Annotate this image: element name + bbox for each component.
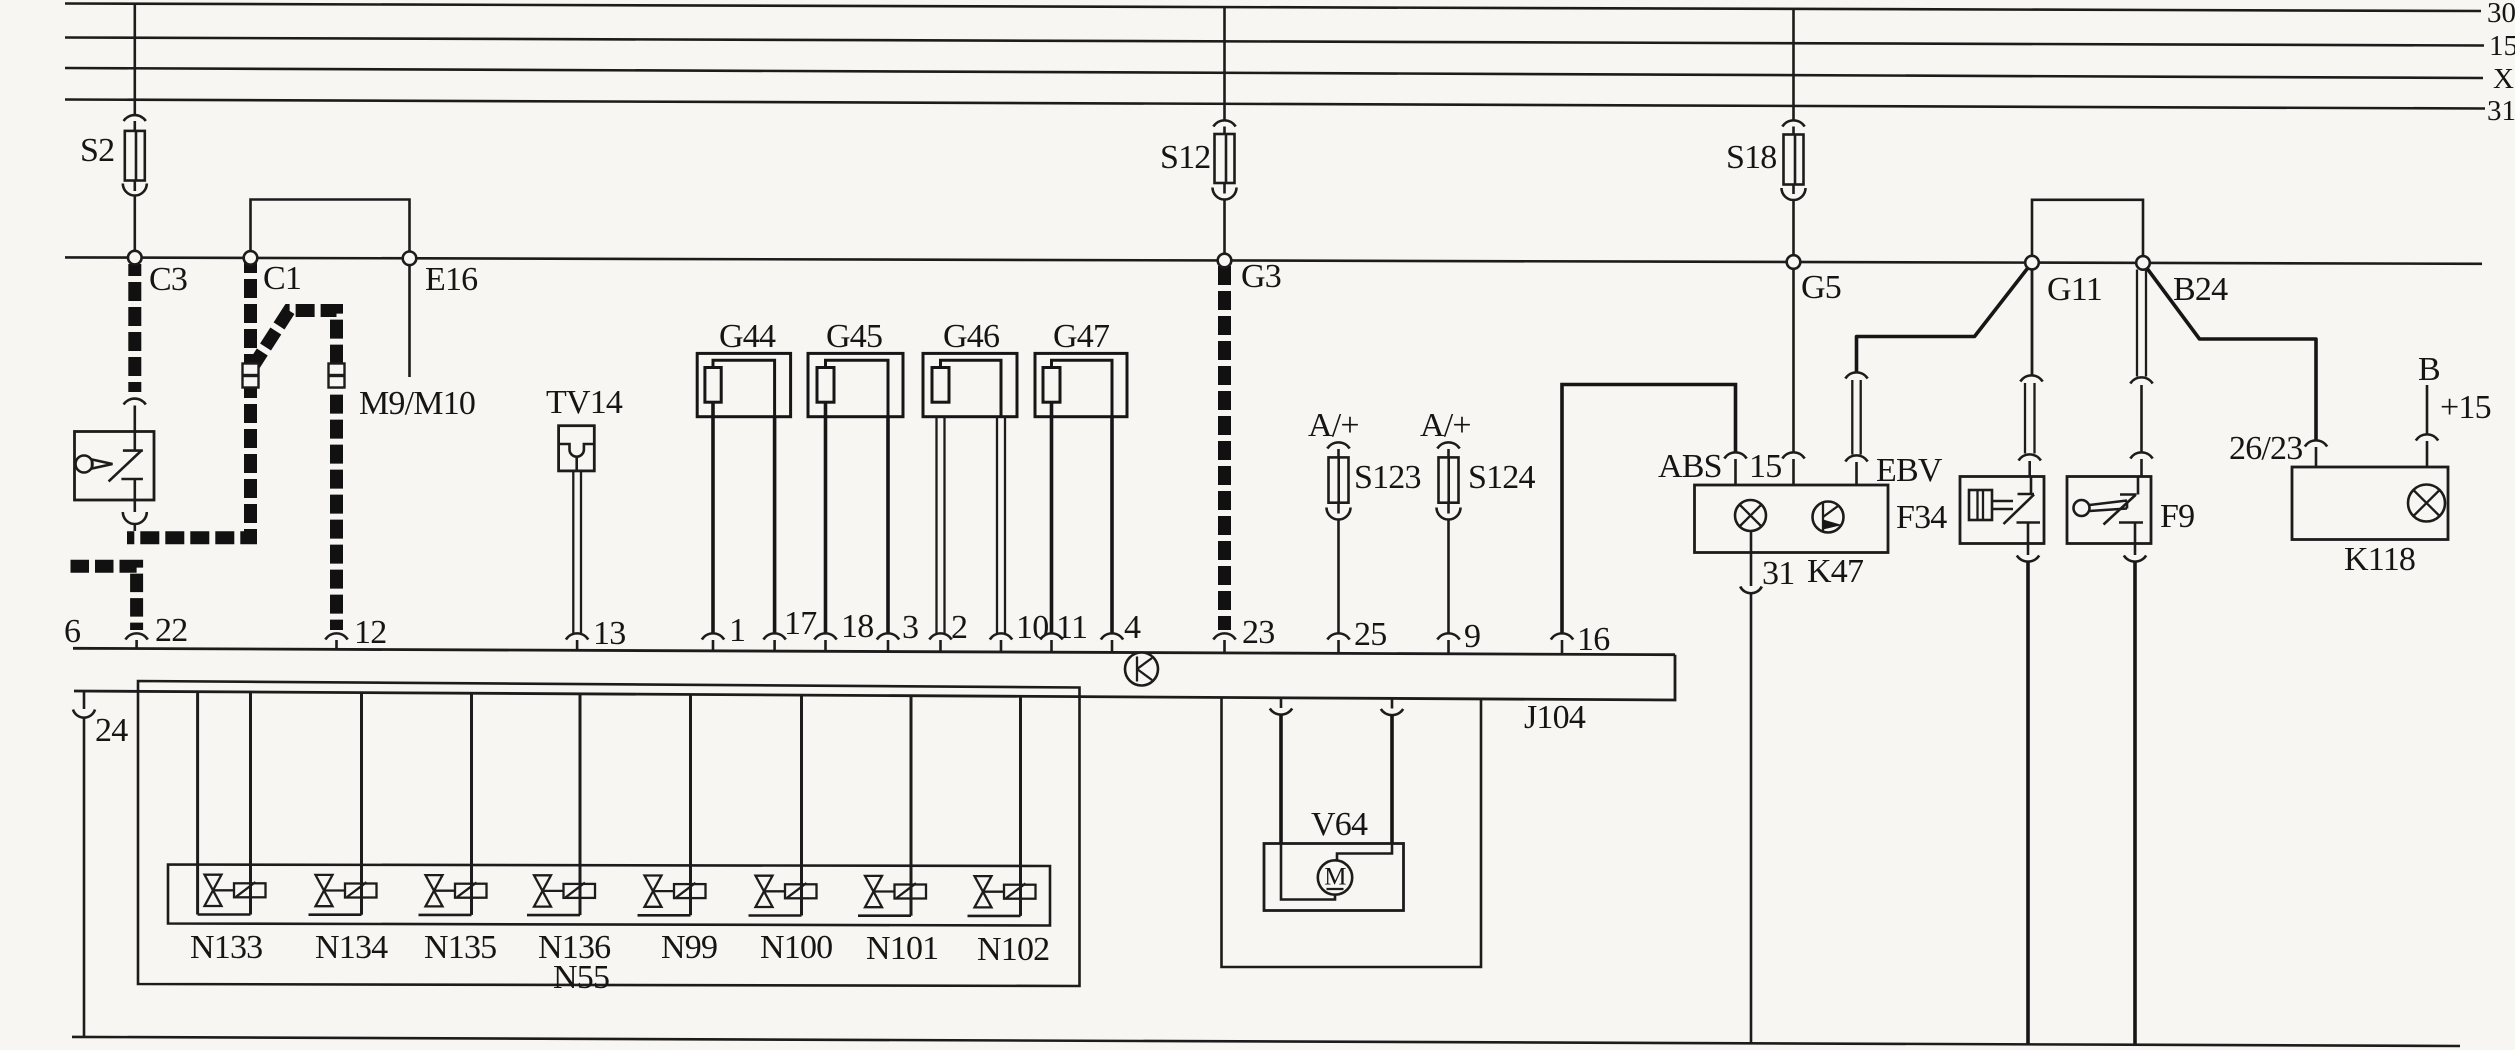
lamp unit K118: [2292, 467, 2448, 540]
wire G45 pin 3: [886, 417, 890, 633]
svg-text:17: 17: [784, 605, 817, 642]
connector arc B wire: [2416, 434, 2438, 440]
pin 9: [1437, 633, 1459, 653]
svg-text:N136: N136: [538, 929, 610, 966]
svg-text:C3: C3: [149, 261, 187, 298]
svg-text:6: 6: [64, 613, 80, 650]
connector arc ABS: [1724, 452, 1746, 458]
pin 23: [1213, 633, 1235, 652]
svg-text:15: 15: [2489, 30, 2515, 62]
connector EBV double wire: [1852, 380, 1860, 455]
pin below F34: [2027, 544, 2030, 556]
wire G5 to K47 pin 15: [1792, 269, 1795, 452]
speed sensor G44: [697, 353, 790, 416]
connector arc F9 mid: [2130, 377, 2152, 383]
wire G11 to F34: [2031, 269, 2034, 375]
solenoid valve N135: [419, 693, 487, 915]
svg-text:11: 11: [1056, 609, 1087, 646]
svg-text:K118: K118: [2344, 541, 2415, 578]
svg-text:S12: S12: [1160, 139, 1211, 176]
control unit J104 box: [73, 648, 1675, 700]
svg-text:1: 1: [729, 612, 745, 649]
diagnostic K symbol on J104: [1125, 653, 1158, 686]
svg-text:4: 4: [1124, 609, 1141, 646]
svg-text:N135: N135: [424, 929, 496, 966]
wire B24 to F9 (double): [2137, 270, 2146, 377]
svg-text:16: 16: [1577, 621, 1609, 658]
svg-text:C1: C1: [263, 260, 301, 297]
svg-text:G11: G11: [2047, 271, 2102, 308]
svg-text:F9: F9: [2160, 498, 2194, 535]
svg-text:18: 18: [841, 608, 873, 645]
brake pressure switch F34: [1960, 477, 2044, 544]
svg-text:31: 31: [2487, 95, 2515, 127]
svg-text:S124: S124: [1468, 459, 1536, 496]
hatched wire C1 down and left to switch: [127, 262, 251, 538]
connector arc below C3 wire: [124, 399, 146, 405]
solenoid valve N133: [198, 692, 266, 915]
fuse S12: [1213, 120, 1237, 199]
wire TV14 to pin 13 (double): [573, 471, 581, 633]
bridge wire G11 to B24: [2032, 200, 2143, 263]
svg-text:N133: N133: [190, 929, 262, 966]
svg-text:M: M: [1324, 864, 1346, 891]
warning lamp unit K47: [1695, 485, 1889, 553]
valve block N55 outer box: [138, 681, 1080, 986]
solenoid valve N99: [638, 695, 706, 916]
speed sensor G46: [923, 353, 1017, 416]
svg-text:22: 22: [155, 612, 187, 649]
pin 10: [990, 633, 1012, 651]
svg-text:25: 25: [1354, 616, 1386, 653]
svg-text:ABS: ABS: [1658, 448, 1722, 485]
node G11: [2025, 256, 2039, 270]
pin 11: [1040, 633, 1062, 652]
hatched wire diagonal to M9/M10 and pin 12: [252, 311, 337, 631]
svg-text:EBV: EBV: [1876, 452, 1943, 489]
brake pressure warning switch: [75, 432, 155, 501]
pin below F9: [2134, 544, 2137, 556]
pin 18: [814, 633, 836, 651]
svg-text:G45: G45: [826, 318, 882, 355]
pin 25: [1327, 633, 1349, 653]
V64 right wire: [1390, 715, 1394, 844]
pin 31 of K47: [1750, 531, 1753, 586]
svg-text:G3: G3: [1241, 258, 1281, 295]
wire arc to switch box: [134, 406, 137, 432]
pin 24 below J104: [83, 691, 86, 709]
hatched wire pin 6 to pin 22: [71, 566, 137, 630]
fuse S18: [1782, 120, 1806, 200]
wire G46 pin 10 (double): [997, 417, 1005, 633]
thermo switch TV14: [559, 426, 595, 471]
svg-text:26/23: 26/23: [2229, 430, 2302, 467]
svg-text:E16: E16: [425, 261, 477, 298]
wire K47 pin31 to ground bus: [1750, 593, 1753, 1044]
svg-text:10: 10: [1016, 609, 1048, 646]
svg-text:J104: J104: [1524, 699, 1586, 736]
svg-text:G46: G46: [943, 318, 999, 355]
V64 enclosure wire loop: [1222, 697, 1482, 967]
wire S18 drop from bus 30: [1792, 9, 1795, 120]
svg-text:B24: B24: [2173, 271, 2228, 308]
hatched wire C3 down: [128, 264, 141, 392]
connector arc 26/23: [2305, 440, 2327, 446]
wire G45 pin 18: [824, 402, 828, 633]
svg-text:G47: G47: [1053, 318, 1110, 355]
svg-text:N102: N102: [977, 931, 1049, 968]
svg-text:G5: G5: [1801, 269, 1841, 306]
wire G11 to EBV: [1857, 263, 2033, 372]
connector arc F34 top: [2020, 375, 2042, 381]
bus line X: [65, 68, 2483, 78]
svg-text:13: 13: [593, 615, 625, 652]
solenoid valve N101: [858, 696, 926, 916]
connector arc EBV bottom: [1845, 455, 1867, 461]
solenoid valve N102: [968, 696, 1036, 916]
bus line 31: [65, 100, 2485, 109]
wire S2 to C3: [134, 196, 137, 253]
wire F34 to ground bus: [2026, 562, 2030, 1046]
svg-text:2: 2: [951, 609, 967, 646]
valve N133 extra return wire: [196, 692, 199, 915]
pin 2: [929, 633, 951, 651]
connector arc 15: [1782, 452, 1804, 458]
speed sensor G45: [808, 353, 903, 416]
wire switch to connector arc: [134, 500, 137, 512]
svg-text:G44: G44: [719, 318, 776, 355]
wire S2 drop from bus 30: [134, 4, 137, 114]
svg-text:31: 31: [1762, 555, 1794, 592]
svg-text:3: 3: [902, 609, 918, 646]
connector M9/M10 on pin-12 wire: [329, 364, 345, 388]
svg-text:F34: F34: [1896, 499, 1947, 536]
connector F34 double wire: [2025, 383, 2035, 454]
brake fluid level switch F9: [2067, 477, 2151, 544]
svg-text:X: X: [2493, 63, 2514, 95]
pin 17: [763, 633, 785, 651]
wire S18 to G5: [1792, 200, 1795, 257]
wire to F9: [2140, 385, 2143, 452]
wire S124 to pin 9: [1447, 520, 1450, 634]
svg-text:S2: S2: [80, 132, 114, 169]
solenoid valve N100: [749, 695, 817, 915]
svg-text:23: 23: [1242, 614, 1274, 651]
pin 4: [1101, 633, 1123, 652]
pin 22: [125, 633, 147, 648]
pump motor V64: [1264, 844, 1404, 911]
svg-text:N134: N134: [315, 929, 388, 966]
wire G47 pin 4: [1110, 417, 1114, 633]
bus line 15: [65, 38, 2484, 46]
wire B +15 to K118: [2426, 385, 2429, 434]
bus line 30: [65, 4, 2481, 12]
pin 1: [702, 633, 724, 650]
svg-text:N99: N99: [661, 929, 717, 966]
wire F9 to ground bus: [2133, 562, 2137, 1046]
pin 13: [566, 633, 588, 650]
connector arc below switch: [123, 512, 147, 524]
svg-text:9: 9: [1464, 618, 1480, 655]
main supply line: [65, 257, 2482, 263]
wire pin 16 to K47 ABS: [1562, 385, 1736, 634]
connector arc F34 lower: [2019, 454, 2041, 460]
node G5: [1787, 255, 1801, 269]
svg-text:K47: K47: [1807, 553, 1864, 590]
V64 left wire: [1279, 715, 1283, 844]
wire S12 drop from bus 30: [1223, 7, 1226, 120]
wire S12 to G3: [1223, 200, 1226, 256]
node B24: [2136, 256, 2150, 270]
valve inner box: [168, 865, 1050, 926]
wire pin 24 to ground bus: [83, 717, 86, 1038]
connector M9/M10 on C1 wire: [243, 364, 259, 388]
solenoid valve N134: [309, 693, 377, 915]
svg-text:24: 24: [95, 712, 128, 749]
pin 16: [1551, 633, 1573, 653]
svg-text:TV14: TV14: [546, 384, 623, 421]
wire S123 to pin 25: [1337, 520, 1340, 634]
svg-text:A/+: A/+: [1420, 407, 1471, 444]
node E16: [403, 251, 417, 265]
fuse S2: [123, 115, 147, 195]
solenoid valve N136: [527, 694, 595, 915]
fuse S123: [1327, 442, 1351, 519]
node C1: [244, 251, 258, 265]
fuse S124: [1437, 442, 1461, 519]
svg-text:12: 12: [354, 614, 386, 651]
wire G44 pin 1: [711, 402, 715, 633]
svg-text:+15: +15: [2440, 389, 2491, 426]
svg-text:N101: N101: [866, 930, 938, 967]
V64 left pin: [1280, 698, 1283, 708]
hatched wire G3 to pin 23: [1218, 266, 1231, 630]
speed sensor G47: [1035, 353, 1127, 416]
svg-text:S123: S123: [1354, 459, 1421, 496]
pin 3: [877, 633, 899, 651]
svg-text:V64: V64: [1311, 806, 1368, 843]
connector arc F9 top: [2130, 452, 2152, 458]
svg-text:15: 15: [1749, 448, 1781, 485]
node G3: [1218, 254, 1232, 268]
wire G46 pin 2 (double): [937, 417, 945, 633]
svg-text:M9/M10: M9/M10: [359, 385, 475, 422]
pin 12: [325, 633, 347, 649]
connector arc EBV top: [1845, 372, 1867, 378]
ground bus bottom: [72, 1037, 2460, 1046]
svg-text:N100: N100: [760, 929, 832, 966]
node C3: [128, 251, 142, 265]
svg-text:B: B: [2418, 351, 2440, 388]
V64 right pin: [1391, 698, 1394, 708]
wire E16 down: [408, 265, 411, 377]
svg-text:A/+: A/+: [1308, 407, 1359, 444]
wire B24 to K118 26/23: [2143, 263, 2316, 440]
svg-text:S18: S18: [1726, 139, 1777, 176]
bridge wire C1 to E16: [251, 200, 410, 259]
wire G44 pin 17: [773, 417, 777, 633]
wire G47 pin 11: [1050, 402, 1054, 633]
svg-text:30: 30: [2487, 0, 2515, 29]
